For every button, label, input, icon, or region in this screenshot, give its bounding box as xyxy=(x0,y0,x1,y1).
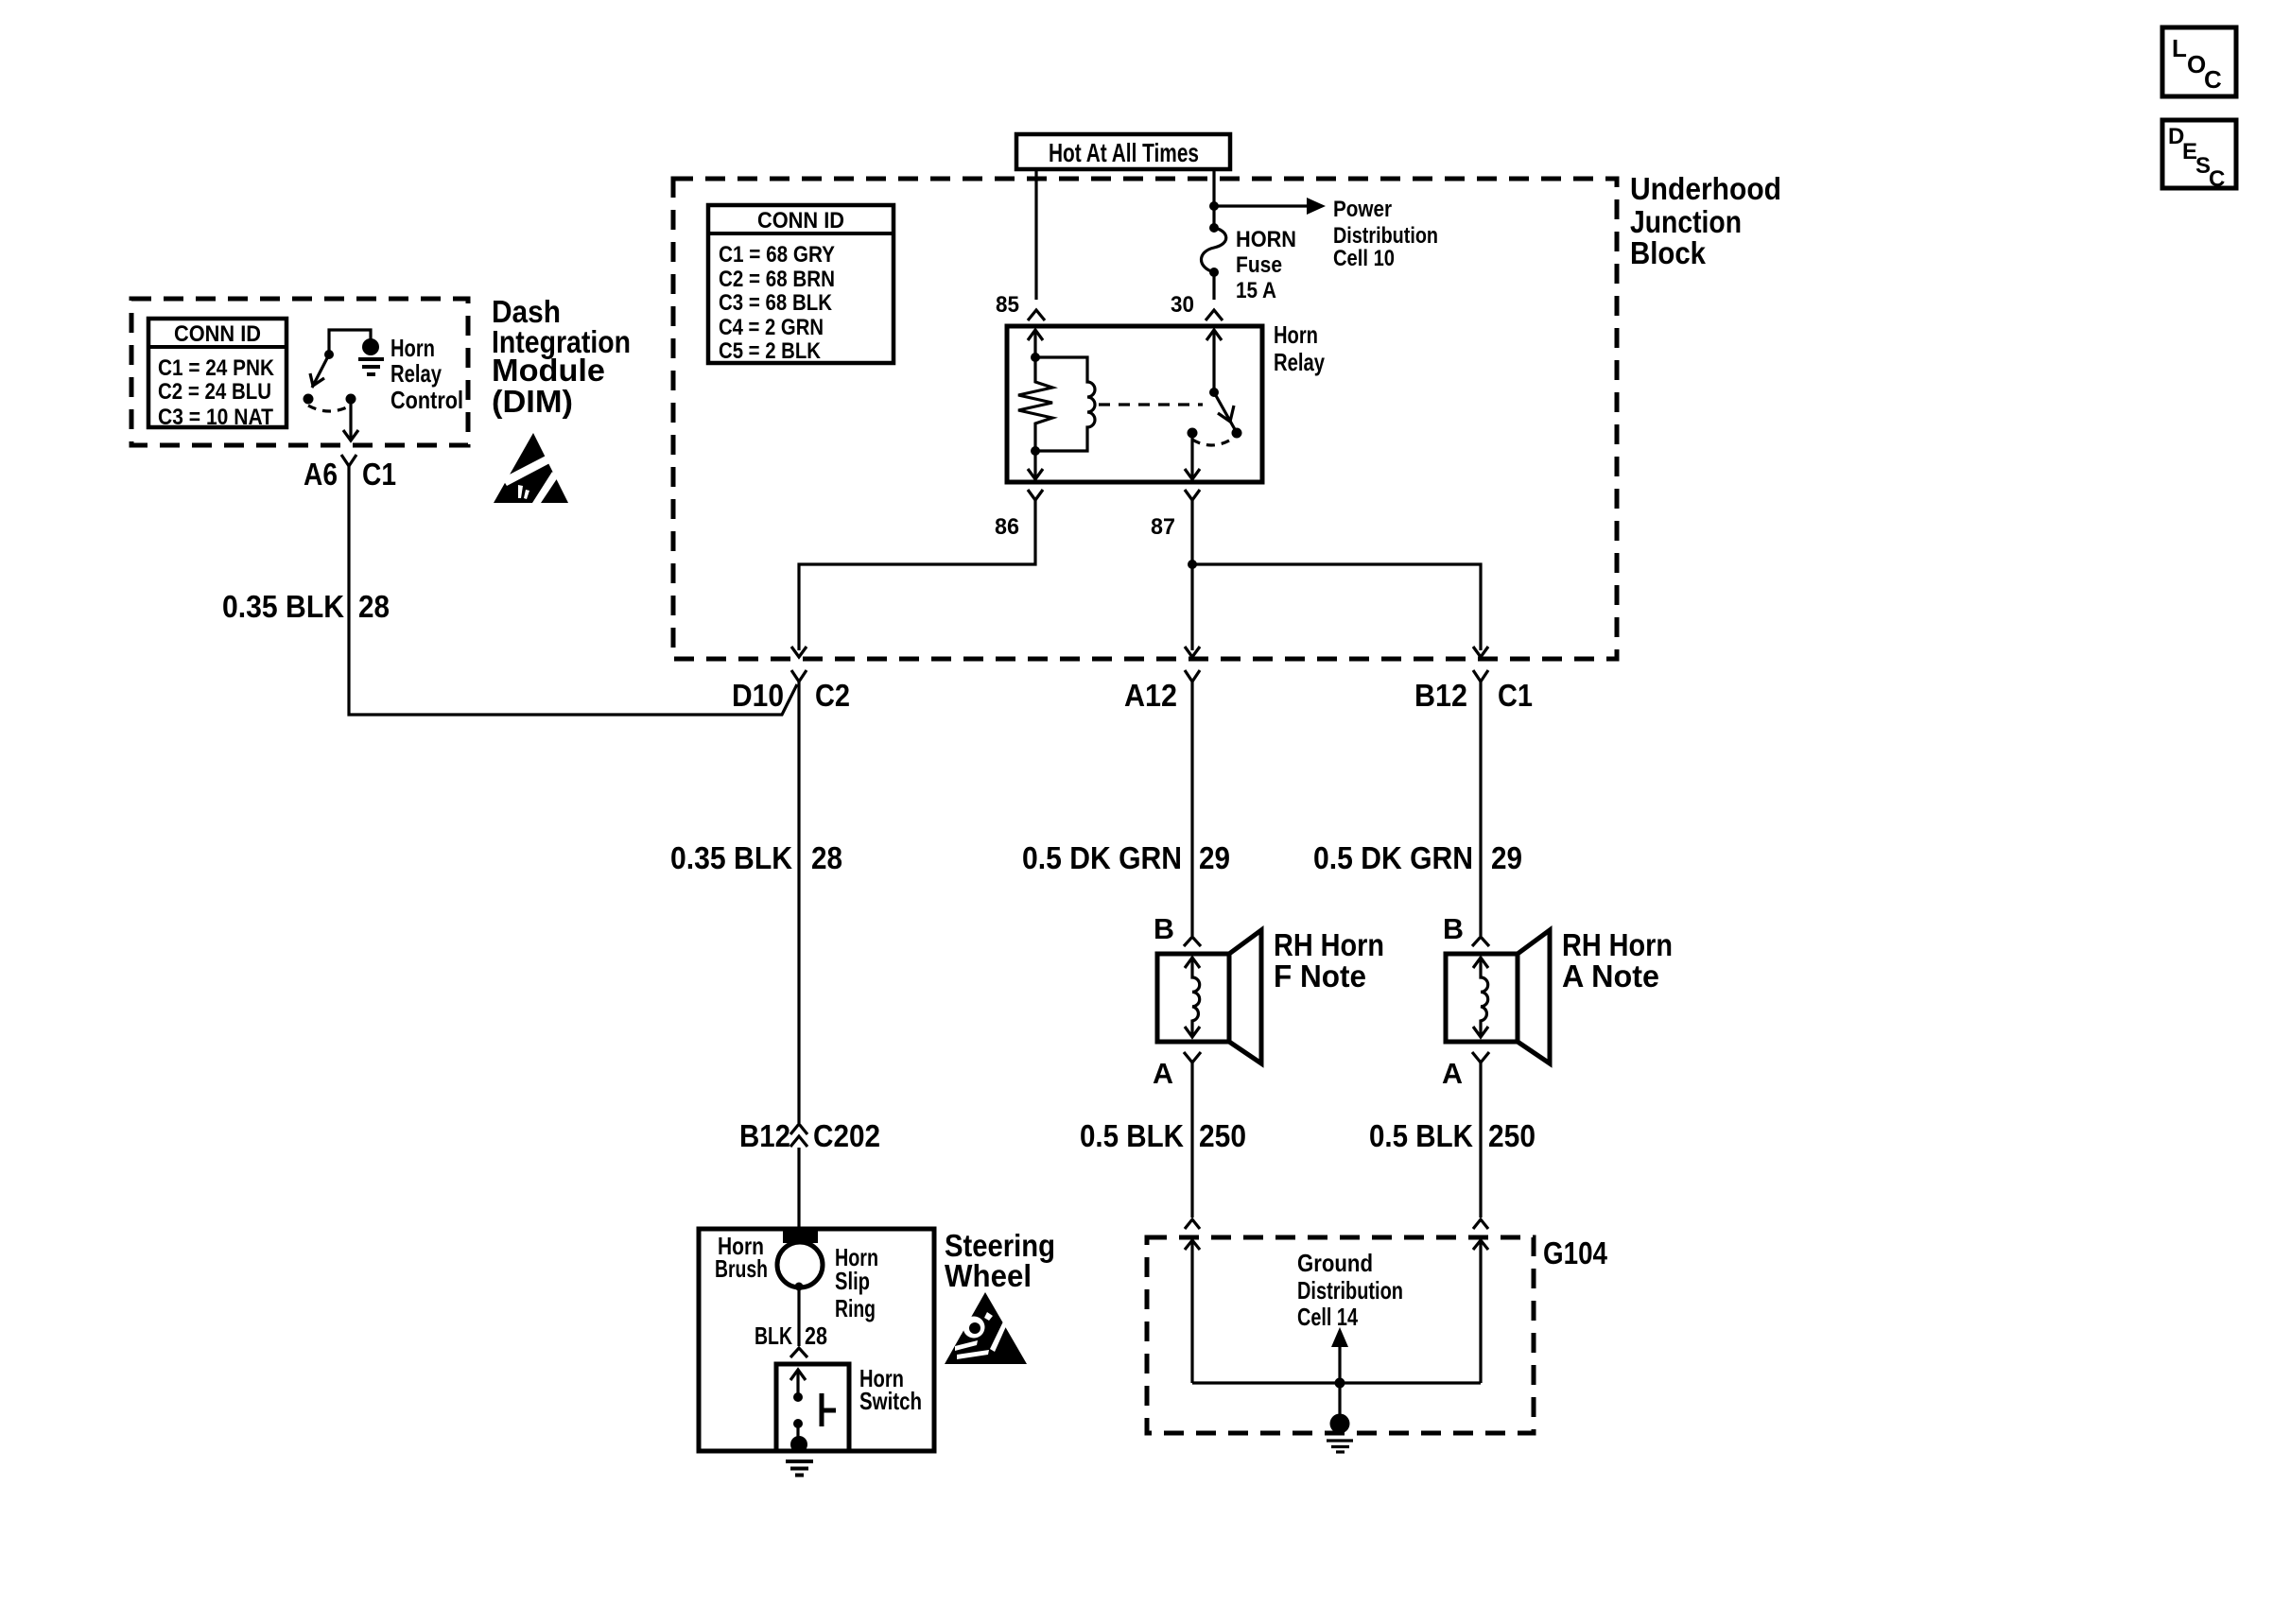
G104 left entry male arrow xyxy=(1185,1240,1200,1383)
svg-text:0.5 DK GRN: 0.5 DK GRN xyxy=(1022,840,1182,875)
svg-text:Relay: Relay xyxy=(390,359,442,388)
svg-text:29: 29 xyxy=(1491,840,1522,875)
svg-text:C1: C1 xyxy=(362,457,396,492)
svg-text:CONN ID: CONN ID xyxy=(757,208,844,233)
connector pin 86 fork xyxy=(1028,490,1043,500)
svg-text:Cell 10: Cell 10 xyxy=(1333,246,1395,271)
connector B12/C202 double caret xyxy=(790,1124,807,1147)
relay coil winding xyxy=(1035,357,1095,451)
svg-text:A: A xyxy=(1153,1057,1173,1090)
svg-text:0.5 BLK: 0.5 BLK xyxy=(1080,1118,1184,1153)
connector pin 85 female caret xyxy=(1028,310,1045,320)
svg-text:(DIM): (DIM) xyxy=(492,384,573,419)
svg-text:28: 28 xyxy=(811,840,842,875)
svg-text:C2 = 68 BRN: C2 = 68 BRN xyxy=(719,267,835,292)
horn switch lower contact xyxy=(793,1419,803,1443)
svg-text:15 A: 15 A xyxy=(1236,278,1276,303)
connector B12/C1 fork xyxy=(1473,670,1488,682)
LOC legend box xyxy=(2162,27,2236,96)
wire: horn A to G104 xyxy=(1479,1063,1482,1218)
horn brush contact xyxy=(783,1231,818,1243)
horn H2: RH Horn A Note xyxy=(1446,930,1550,1063)
svg-text:Brush: Brush xyxy=(715,1254,768,1283)
horn slip ring xyxy=(777,1242,823,1287)
DIM switch arm with arrowhead xyxy=(310,350,334,388)
relay armature dashed link xyxy=(1099,403,1203,406)
relay pin 87 male arrow down xyxy=(1185,437,1200,479)
wire: A12 down to horn F xyxy=(1190,682,1193,936)
svg-text:D10: D10 xyxy=(732,678,784,713)
svg-text:B: B xyxy=(1154,912,1174,945)
svg-text:Horn: Horn xyxy=(1274,320,1318,349)
arrowhead into D10 xyxy=(791,647,807,657)
svg-text:C1 = 68 GRY: C1 = 68 GRY xyxy=(719,242,835,268)
svg-text:C4 = 2 GRN: C4 = 2 GRN xyxy=(719,315,824,340)
svg-text:A6: A6 xyxy=(304,457,338,492)
svg-text:Underhood: Underhood xyxy=(1630,171,1781,206)
svg-text:0.35 BLK: 0.35 BLK xyxy=(670,840,792,875)
DIM output male arrow down xyxy=(343,399,358,441)
svg-text:0.5 BLK: 0.5 BLK xyxy=(1369,1118,1473,1153)
svg-text:Control: Control xyxy=(390,386,463,414)
arrowhead into B12 xyxy=(1473,647,1488,657)
Dash Integration Module dashed enclosure xyxy=(131,299,468,445)
horn H1: RH Horn F Note xyxy=(1157,930,1261,1063)
svg-text:A Note: A Note xyxy=(1562,959,1659,993)
relay pin 86 male arrow down xyxy=(1028,451,1043,479)
ground (horn relay control) xyxy=(358,359,384,374)
connector D10/C2 fork xyxy=(791,670,807,682)
ground (horn switch) xyxy=(786,1436,813,1476)
G104 right entry male arrow xyxy=(1473,1240,1488,1383)
svg-text:Ground: Ground xyxy=(1297,1249,1373,1277)
DIM switch contacts xyxy=(304,394,314,405)
connector A6/C1 fork xyxy=(341,455,356,466)
wire: C2 down to C202 xyxy=(797,682,800,1123)
wire arrow to Power Distribution xyxy=(1214,198,1326,215)
DIM driver switch feed xyxy=(329,330,379,355)
fuse F: HORN Fuse 15 A xyxy=(1202,223,1226,277)
wire: C1 down to horn A xyxy=(1479,682,1482,936)
svg-text:250: 250 xyxy=(1199,1118,1246,1153)
svg-text:A: A xyxy=(1442,1057,1463,1090)
svg-text:HORN: HORN xyxy=(1236,227,1296,252)
wire: horn F to G104 xyxy=(1190,1063,1193,1218)
SRS caution symbol xyxy=(945,1292,1027,1364)
connector pin 87 fork xyxy=(1185,490,1200,500)
svg-text:CONN ID: CONN ID xyxy=(174,321,261,347)
relay switch arm with arrowhead xyxy=(1214,392,1242,439)
node: pin 87 branch junction xyxy=(1188,560,1197,569)
connector horn A pin A fork xyxy=(1472,1052,1489,1063)
node: relay coil top xyxy=(1031,353,1040,362)
svg-text:C2 = 24 BLU: C2 = 24 BLU xyxy=(158,379,271,405)
connector A12 fork xyxy=(1185,670,1200,682)
wire: Hot At All Times to relay pin 85 xyxy=(1034,170,1037,300)
wire: fuse to relay pin 30 xyxy=(1212,272,1215,300)
svg-text:B12: B12 xyxy=(739,1118,790,1153)
node: relay contact 87 xyxy=(1188,428,1198,439)
svg-text:87: 87 xyxy=(1151,514,1175,540)
horn switch male arrow up xyxy=(790,1370,806,1402)
CONN ID table (Underhood Junction Block) xyxy=(708,205,894,363)
arrowhead into A12 xyxy=(1185,647,1200,657)
svg-text:RH Horn: RH Horn xyxy=(1274,927,1384,962)
node: relay coil bottom xyxy=(1031,446,1040,456)
node: relay switch pivot xyxy=(1209,388,1219,397)
node: fuse feed junction xyxy=(1209,201,1219,211)
connector pin 30 female caret xyxy=(1206,310,1223,320)
svg-text:28: 28 xyxy=(358,589,390,624)
DIM contact dashed arc xyxy=(308,406,351,411)
svg-text:C: C xyxy=(2204,65,2222,94)
connector horn F pin B caret xyxy=(1184,937,1201,946)
connector horn A pin B caret xyxy=(1472,937,1489,946)
relay contact dashed arc xyxy=(1192,440,1231,445)
svg-text:F Note: F Note xyxy=(1274,959,1366,993)
svg-text:Module: Module xyxy=(492,353,605,388)
svg-text:Power: Power xyxy=(1333,197,1392,222)
horn switch actuator xyxy=(822,1393,836,1426)
connector caret into G104 right xyxy=(1473,1219,1488,1229)
svg-text:Cell 14: Cell 14 xyxy=(1297,1303,1358,1331)
svg-text:Distribution: Distribution xyxy=(1333,223,1438,249)
relay pin 85 male arrow xyxy=(1028,330,1043,357)
relay pin 30 male arrow xyxy=(1206,330,1222,392)
wire: pin 87 down to A12 xyxy=(1190,500,1193,650)
resistor (relay shunt) xyxy=(1018,357,1052,451)
wire: branch over to B12 xyxy=(1192,564,1481,650)
CONN ID table (DIM) xyxy=(148,319,286,427)
svg-text:Wheel: Wheel xyxy=(945,1258,1032,1293)
switch S: horn switch box xyxy=(776,1364,849,1451)
ground G104 dashed enclosure xyxy=(1147,1237,1534,1433)
svg-text:C2: C2 xyxy=(815,678,850,713)
svg-text:C3 = 68 BLK: C3 = 68 BLK xyxy=(719,290,833,316)
svg-text:30: 30 xyxy=(1171,292,1194,318)
svg-text:B12: B12 xyxy=(1414,678,1467,713)
wire: slip ring to horn switch xyxy=(797,1287,800,1346)
svg-text:85: 85 xyxy=(996,292,1019,318)
wire: G104 ground bus xyxy=(1192,1381,1481,1384)
node: G104 junction xyxy=(1335,1378,1345,1389)
arrow to Ground Distribution Cell 14 xyxy=(1331,1327,1348,1383)
svg-text:BLK: BLK xyxy=(755,1322,792,1350)
box Hot At All Times xyxy=(1016,134,1230,169)
svg-text:Ring: Ring xyxy=(835,1294,876,1322)
svg-text:0.35 BLK: 0.35 BLK xyxy=(222,589,344,624)
svg-text:250: 250 xyxy=(1488,1118,1536,1153)
svg-text:Slip: Slip xyxy=(835,1267,870,1295)
relay K: horn relay box xyxy=(1007,326,1262,482)
Underhood Junction Block dashed enclosure xyxy=(673,179,1617,659)
connector horn F pin A fork xyxy=(1184,1052,1201,1063)
connector caret into G104 left xyxy=(1185,1219,1200,1229)
svg-text:Junction: Junction xyxy=(1630,204,1742,239)
wire: C202 into steering wheel xyxy=(797,1148,800,1233)
svg-text:28: 28 xyxy=(805,1322,827,1350)
svg-text:L: L xyxy=(2172,34,2187,62)
svg-text:C1 = 24 PNK: C1 = 24 PNK xyxy=(158,355,275,381)
svg-text:Horn: Horn xyxy=(390,334,435,362)
svg-text:C202: C202 xyxy=(813,1118,880,1153)
ground terminal G104 xyxy=(1327,1383,1353,1452)
connector caret above horn switch xyxy=(790,1348,807,1357)
svg-text:Relay: Relay xyxy=(1274,348,1325,376)
ESD sensitive device symbol xyxy=(494,433,568,503)
svg-text:C5 = 2 BLK: C5 = 2 BLK xyxy=(719,338,822,364)
svg-text:29: 29 xyxy=(1199,840,1230,875)
wire: A6/C1 down and over to D10 xyxy=(349,466,797,715)
svg-text:86: 86 xyxy=(995,514,1019,540)
svg-text:Block: Block xyxy=(1630,235,1707,270)
svg-text:A12: A12 xyxy=(1124,678,1177,713)
wire: pin 86 to D10 xyxy=(799,500,1035,650)
svg-text:B: B xyxy=(1443,912,1464,945)
svg-text:C: C xyxy=(2209,166,2225,192)
DESC legend box xyxy=(2162,120,2236,192)
svg-text:Hot At All Times: Hot At All Times xyxy=(1049,138,1199,167)
svg-text:Fuse: Fuse xyxy=(1236,252,1282,278)
svg-text:Switch: Switch xyxy=(859,1387,922,1415)
svg-text:0.5 DK GRN: 0.5 DK GRN xyxy=(1313,840,1473,875)
svg-text:G104: G104 xyxy=(1543,1235,1608,1270)
svg-text:RH Horn: RH Horn xyxy=(1562,927,1673,962)
svg-text:C1: C1 xyxy=(1498,678,1533,713)
wire: Hot At All Times to fuse xyxy=(1212,170,1215,227)
svg-text:Distribution: Distribution xyxy=(1297,1276,1403,1304)
Steering Wheel enclosure xyxy=(699,1229,934,1451)
